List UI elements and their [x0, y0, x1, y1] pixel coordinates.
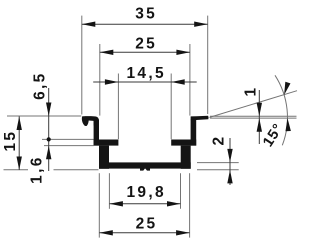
svg-text:15: 15 — [2, 130, 19, 152]
svg-text:2: 2 — [210, 135, 227, 146]
svg-text:35: 35 — [135, 6, 157, 23]
svg-text:25: 25 — [136, 215, 158, 232]
svg-text:19,8: 19,8 — [127, 184, 166, 201]
svg-text:1: 1 — [242, 86, 259, 97]
svg-text:1,6: 1,6 — [28, 155, 45, 183]
svg-text:25: 25 — [135, 35, 157, 52]
svg-text:14,5: 14,5 — [127, 65, 166, 82]
svg-text:6,5: 6,5 — [31, 71, 48, 99]
